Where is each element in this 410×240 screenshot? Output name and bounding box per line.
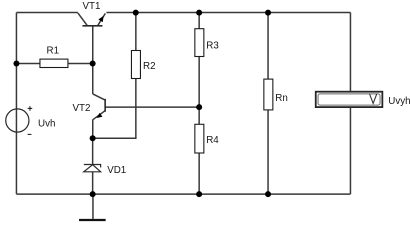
svg-text:Rn: Rn <box>275 93 288 104</box>
svg-text:R4: R4 <box>206 135 219 146</box>
svg-text:VD1: VD1 <box>107 165 126 176</box>
svg-text:R2: R2 <box>143 61 156 72</box>
svg-text:Uvh: Uvh <box>38 118 55 129</box>
svg-text:Uvyh: Uvyh <box>388 96 410 107</box>
svg-text:VT1: VT1 <box>83 1 101 12</box>
svg-text:R3: R3 <box>206 40 219 51</box>
svg-text:VT2: VT2 <box>73 103 91 114</box>
svg-text:R1: R1 <box>47 45 60 56</box>
